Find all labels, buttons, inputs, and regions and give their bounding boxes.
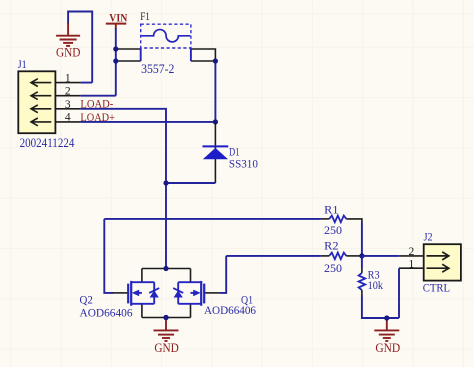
resistor R3 zigzag [359,273,366,290]
svg-text:250: 250 [324,223,342,237]
svg-text:J2: J2 [424,230,433,244]
wire black fuse lower-right [191,60,216,62]
gate bar [203,284,205,304]
pin Q2 source vertical [141,304,143,318]
resistor R1 zigzag [329,216,346,223]
svg-text:J1: J1 [18,57,27,71]
resistor R3 10k [359,256,399,318]
junction dot top rail [163,266,168,271]
body diode zener bar [173,288,183,293]
channel bar [130,281,132,306]
pin R2 right [346,255,359,257]
channel bar [200,281,202,306]
resistor R2 250 [226,239,364,275]
wire J2 pin1 down [398,268,400,318]
arrows inside J1 [31,79,51,126]
gate bar [127,284,129,304]
fuse F1 [140,9,191,76]
wire D1 bottom to LOAD- vertical [166,182,215,184]
wire GND1 bracket to J1 pin1 [68,12,92,83]
arrow tail [138,292,142,294]
svg-text:10k: 10k [368,278,383,292]
junction dot fuse output [213,58,218,63]
wire black fuse upper-left [116,48,141,50]
pin 3 [55,108,80,110]
resistor R2 zigzag [329,253,346,260]
transistor Q1 AOD66406 [173,281,256,317]
pin R3 top [361,269,363,273]
arrow tail [191,292,195,294]
pin R1 left [321,218,329,220]
pin R1 right [346,219,362,223]
wire black fuse lower-left [116,60,141,62]
svg-text:1: 1 [409,259,415,271]
svg-text:F1: F1 [140,9,150,23]
diode D1 triangle [203,148,228,159]
svg-text:AOD66406: AOD66406 [204,303,256,317]
body diode vertical [153,282,155,304]
svg-text:3557-2: 3557-2 [141,61,174,76]
transistor Q2 AOD66406 [80,281,160,319]
svg-text:2: 2 [409,246,415,258]
wire top rail MOSFET bridge [142,268,191,270]
wire VIN vertical to J1 pin2 [115,28,117,96]
svg-text:VIN: VIN [109,11,127,25]
arrow head Q1 [193,290,200,297]
pin fuse right stub [190,48,192,61]
pin 4 [55,121,80,123]
body diode vertical [177,282,179,304]
pin Q2 drain vertical [141,269,143,283]
wire R1 to R2 [361,223,363,256]
wire LOAD- [80,109,166,269]
ground GND2 (bridge source) [154,315,179,355]
arrows inside J2 [427,252,449,272]
body diode triangle Q1 [174,290,183,297]
junction dot bottom rail (redraw) [163,315,168,320]
wire black fuse upper-right [191,49,216,61]
svg-text:GND: GND [375,341,400,355]
wire J1 pin2 to VIN [80,95,115,97]
pin R2 left [321,255,329,257]
pin 2 [55,95,80,97]
junction dot GND3 [384,315,389,320]
pin Q1 source vertical [190,304,192,318]
wire R2 to J2 pin2 [362,255,399,257]
body diode zener bar [149,288,159,293]
pin Q1 gate [204,292,220,294]
pin 1 [55,82,80,84]
junction dot LOAD+ [213,119,218,124]
wire LOAD+ [80,121,215,123]
pin fuse left stub [140,48,142,61]
svg-text:AOD66406: AOD66406 [80,305,133,319]
connector J1 [18,57,81,150]
svg-text:2: 2 [65,86,71,98]
svg-text:1: 1 [65,73,71,85]
wire R3 bottom [362,296,399,319]
pin 1 [399,267,424,269]
svg-text:GND: GND [56,46,81,60]
ground GND1 symbol [56,23,80,46]
svg-text:3: 3 [65,99,71,111]
wire R2 left [226,255,321,257]
ground GND3 (bottom-right) [374,315,400,355]
diode D1 SS310 [203,122,258,183]
arrow head Q2 [132,290,139,297]
wire gate Q2 from R1 [104,219,113,293]
junction dot R2/R3 [359,253,364,258]
junction dot bottom rail [163,315,168,320]
junction dot at (166,183) [163,180,168,185]
connector J2 [399,230,461,295]
pin D1 vertical lead [214,122,216,183]
source stub [178,303,201,305]
svg-text:250: 250 [324,261,342,275]
junction dots VIN [113,46,118,51]
pin Q1 drain vertical [190,269,192,283]
svg-text:GND: GND [154,341,179,355]
source stub [131,303,154,305]
pin R3 bottom [361,290,363,295]
svg-text:4: 4 [65,112,71,124]
wire gate Q1 from R2 [220,256,226,293]
wire R3 top [361,256,363,269]
svg-text:SS310: SS310 [229,156,258,170]
pin Q2 gate [113,292,129,294]
svg-text:CTRL: CTRL [423,280,450,294]
pin 2 [399,255,424,257]
wire R1 left [104,218,321,220]
svg-text:R1: R1 [324,203,338,217]
svg-text:2002411224: 2002411224 [20,136,75,150]
drain stub [131,281,154,283]
power port VIN [106,11,128,29]
body diode triangle Q2 [150,290,159,297]
wire bottom rail MOSFET bridge [142,317,191,319]
drain stub [178,281,201,283]
ground GND1 (top-left) [56,12,92,83]
wire fuse output down [214,61,216,122]
diode D1 cathode bar [203,145,229,147]
resistor R1 250 [104,203,362,256]
svg-text:R2: R2 [324,239,338,253]
